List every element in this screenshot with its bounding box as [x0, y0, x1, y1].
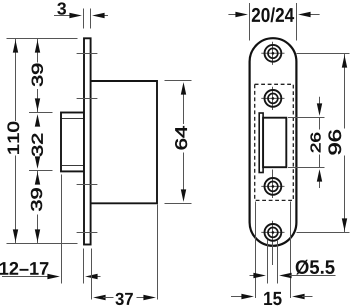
- dimension text 39 bottom: [31, 188, 42, 210]
- dimension 37: [93, 295, 156, 300]
- extension lines 96: [297, 53, 350, 55]
- dimension 12-17: [2, 274, 101, 279]
- screw hole tick 2: [77, 98, 98, 100]
- dimension 26: [317, 97, 322, 188]
- screw hole 3: [261, 175, 284, 198]
- extension line 39/32 boundary: [29, 112, 53, 114]
- dimension text 96: [329, 130, 341, 154]
- extension lines 26: [288, 117, 325, 119]
- centre line below bottom hole: [272, 244, 274, 265]
- dashed 20 mm variant outline: [255, 84, 294, 200]
- screw hole 2: [261, 87, 284, 110]
- dimension 3 extension lines: [83, 9, 85, 29]
- roller latch box: [61, 113, 84, 172]
- dimension text 64: [175, 126, 187, 149]
- dimension 20/24 extension lines: [249, 3, 251, 41]
- dimension 39 bottom line: [35, 171, 40, 244]
- dimension text 39 top: [32, 64, 43, 86]
- extension line plate back: [91, 249, 93, 300]
- dimension text 110: [8, 122, 19, 154]
- dimension 96: [342, 54, 347, 233]
- screw hole 4: [261, 221, 284, 244]
- dimension text 37: [115, 293, 132, 305]
- extension line latch left edge: [61, 175, 63, 284]
- dimension 32 arrows: [35, 114, 40, 169]
- centre line below opening: [272, 170, 274, 179]
- extension line v1: [255, 202, 257, 299]
- dimension text 20/24: [252, 7, 294, 22]
- extension line plate bottom: [7, 243, 78, 245]
- extension line plate top: [7, 38, 78, 40]
- dimension text 26: [311, 133, 321, 152]
- dimension text 3: [57, 2, 66, 14]
- dimension text 12-17: [0, 262, 48, 275]
- faceplate: [84, 38, 91, 244]
- screw hole tick 3: [77, 184, 98, 186]
- dimension text 15: [264, 292, 281, 305]
- lock case: [91, 81, 157, 203]
- dimension text 32: [32, 134, 43, 156]
- dimension 39 top line: [35, 39, 40, 113]
- strike plate outline: [250, 38, 297, 246]
- extension line v4: [290, 202, 292, 299]
- latch lip bar: [259, 113, 263, 173]
- dimension 3 arrows: [54, 13, 108, 18]
- dimension 15: [231, 294, 313, 299]
- extension line case right: [157, 205, 159, 300]
- dimension diameter 5.5: [250, 273, 336, 278]
- extension line case top: [165, 80, 192, 82]
- latch opening: [263, 118, 286, 168]
- dimension 64: [181, 82, 186, 202]
- extension line 32/39 boundary: [29, 170, 53, 172]
- screw hole tick 1: [77, 53, 98, 55]
- extension line case bottom: [165, 203, 192, 205]
- extension line v2: [267, 240, 269, 284]
- extension line plate front: [83, 249, 85, 284]
- dimension text diameter 5.5: [296, 260, 335, 275]
- screw hole 1: [261, 42, 284, 65]
- screw hole tick 4: [77, 232, 98, 234]
- extension line v3: [277, 240, 279, 284]
- dimension 20/24 arrows: [228, 12, 319, 17]
- dimension 110 line: [13, 39, 18, 244]
